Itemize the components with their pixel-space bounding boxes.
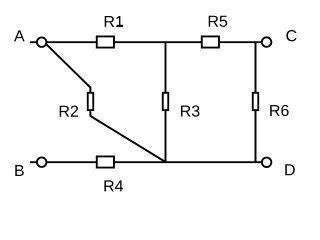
wire B to R4 xyxy=(47,161,96,163)
resistor R4 xyxy=(97,156,123,191)
wire R4 to D xyxy=(114,161,261,163)
node D xyxy=(262,158,295,176)
node B xyxy=(15,157,46,176)
resistor R2 xyxy=(60,93,94,117)
resistor R5 xyxy=(202,16,227,48)
wire top junction to R3 xyxy=(165,42,167,93)
wire R1 to R5 xyxy=(114,41,201,43)
wire R3 to bottom junction xyxy=(165,111,167,162)
wire R6 to bottom wire junction xyxy=(255,111,257,162)
node C xyxy=(262,30,297,47)
wire R2 to bottom junction diagonal xyxy=(90,111,165,162)
wire R5 to C xyxy=(219,41,261,43)
node A xyxy=(14,30,46,47)
wire A to R2 diagonal xyxy=(45,43,90,93)
wire A to R1 xyxy=(46,41,96,43)
resistor R6 xyxy=(253,93,289,116)
resistor R3 xyxy=(163,93,200,117)
resistor R1 xyxy=(97,16,123,48)
wire top junction to R6 xyxy=(255,42,257,93)
